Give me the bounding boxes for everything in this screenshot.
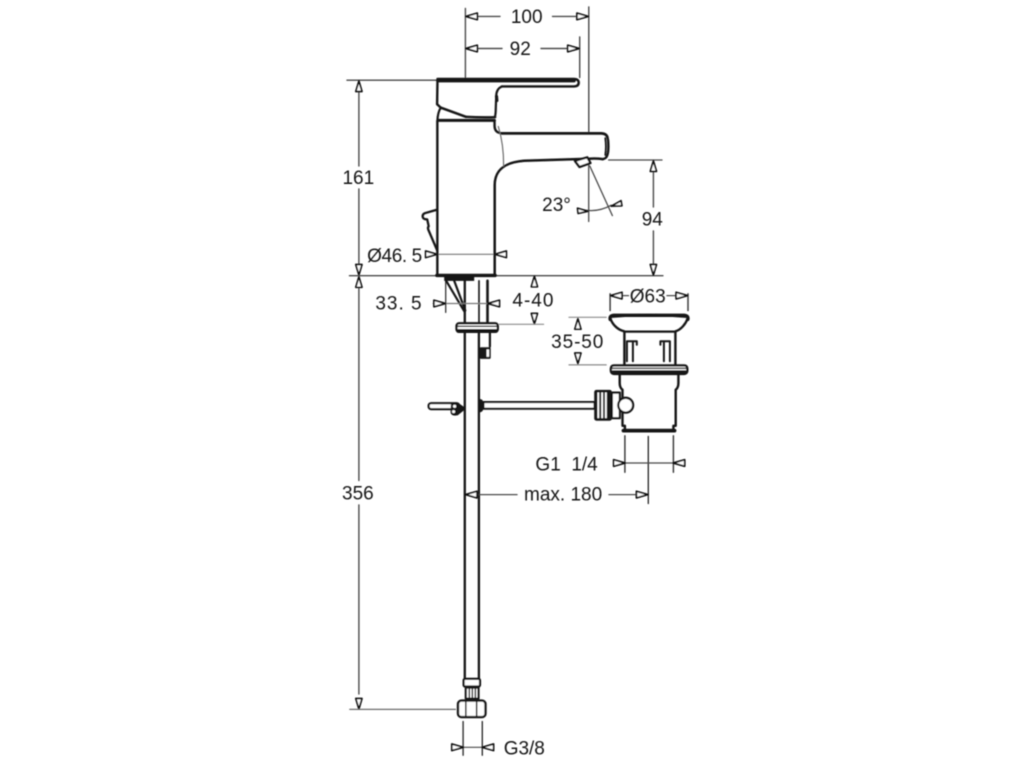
reference line bottom for dim 356 [350, 708, 456, 710]
svg-text:G3/8: G3/8 [504, 739, 545, 760]
supply tube right edge [478, 332, 480, 679]
spout aerator [575, 157, 591, 167]
reference line for dim 4-40 (washer top) [499, 323, 544, 325]
dimension D46.5 line across body [437, 253, 494, 255]
faucet lever top bar [438, 79, 579, 87]
dimension 4-40 arrows [531, 276, 537, 287]
dimension G1 1/4 line [625, 462, 674, 464]
threaded shank right wall [486, 281, 489, 324]
svg-text:max. 180: max. 180 [524, 484, 602, 505]
svg-text:23°: 23° [542, 195, 571, 216]
dimension G3/8 line and arrows [463, 746, 482, 748]
threaded shank left wall [464, 281, 466, 324]
linkage ball nut on tube [480, 399, 484, 412]
linkage rod left segment [429, 403, 460, 409]
dimension max. 180 right arrow [609, 494, 637, 496]
dimension D46.5 arrows [426, 251, 438, 258]
dimension 100 line [477, 15, 500, 17]
dimension 92 line [477, 48, 502, 50]
drain bottom edge [624, 429, 675, 433]
faucet lever neck front edge [495, 87, 502, 118]
faucet base plate bottom edge [437, 274, 495, 277]
drain linkage ball [618, 398, 633, 413]
svg-text:94: 94 [642, 210, 664, 231]
supply hose diagonal 2 [454, 281, 465, 311]
extension lines for dim G3/8 [462, 722, 464, 756]
angle 23 deg vertex line [588, 161, 590, 222]
angle 23 deg arrows [578, 208, 588, 213]
dimension 94 line [652, 173, 654, 208]
faucet body left edge [436, 121, 438, 274]
faucet lever bottom-left corner [437, 104, 441, 108]
svg-text:G1 1/4: G1 1/4 [535, 455, 598, 476]
drain neck walls [623, 332, 625, 365]
supply hose diagonal 1 [446, 281, 464, 312]
dimension 356 line [358, 288, 360, 481]
drain center line [647, 437, 649, 504]
dimension G1 1/4 arrows [614, 460, 626, 467]
svg-text:100: 100 [511, 7, 543, 28]
mounting stud below washer [489, 332, 491, 346]
reference line spout outlet for dim 94 [609, 159, 662, 161]
svg-text:161: 161 [342, 168, 374, 189]
drain side inlet ridged nut [594, 390, 612, 421]
countertop baseline [350, 275, 663, 277]
linkage clamp knot [451, 403, 465, 416]
base gasket [444, 277, 474, 281]
drain neck slot left [627, 341, 637, 361]
dimension D63 ticks [609, 294, 611, 311]
extension line left (faucet axis) for dims 100/92 [464, 9, 466, 78]
drain lock ring [611, 365, 687, 374]
dimension 33.5 line [433, 303, 489, 305]
hose end knurl [466, 688, 479, 699]
faucet body right edge upper with corner to spout [495, 121, 502, 134]
extension line top for dim 161 [347, 79, 437, 81]
hose end nut G3/8 [458, 701, 486, 718]
horseshoe washer [457, 323, 498, 332]
spout-body fillet arc [498, 127, 503, 167]
angle 23 deg arc [581, 205, 611, 210]
faucet body dome left arc [437, 108, 440, 121]
dimension 35-50 reference lines [569, 316, 606, 318]
spout end cap [603, 137, 609, 159]
svg-text:33. 5: 33. 5 [375, 294, 422, 315]
faucet lever bottom edge [466, 116, 495, 119]
angle 23 deg slanted line [590, 166, 613, 216]
svg-text:356: 356 [342, 484, 374, 505]
dimension max. 180 left arrow [466, 491, 478, 498]
svg-text:Ø46. 5: Ø46. 5 [367, 246, 422, 267]
svg-text:Ø63: Ø63 [630, 286, 666, 307]
faucet lever left edge [436, 80, 439, 105]
svg-text:35-50: 35-50 [551, 332, 604, 353]
extension line right for dim 100 (spout outlet axis) [588, 7, 590, 132]
drain neck slot right [660, 341, 670, 361]
spout bottom edge [495, 159, 603, 274]
faucet lever neck notch [495, 97, 498, 101]
drain funnel left side [610, 319, 624, 332]
pull rod line inside shank [478, 281, 480, 324]
svg-text:92: 92 [510, 39, 531, 60]
linkage rod right segment [484, 402, 595, 409]
drain side inlet collar [612, 393, 620, 419]
extension line right for dim 92 (lever tip) [579, 37, 581, 78]
faucet lever bottom diagonal [441, 108, 466, 117]
svg-text:4-40: 4-40 [512, 291, 554, 312]
drain funnel shoulder line [624, 331, 675, 333]
supply tube left edge [464, 332, 466, 679]
rod clamp block [480, 347, 491, 359]
dimension 161 line [358, 90, 360, 166]
drain funnel right side [676, 319, 688, 332]
drain body walls [620, 374, 625, 429]
pull-rod knob on body left [423, 210, 438, 251]
dimension D63 line and arrows [622, 295, 629, 297]
spout top edge [502, 133, 608, 136]
extension line for dim 33.5 [445, 281, 447, 313]
dimension 35-50 arrows [575, 319, 581, 330]
faucet body top edge [439, 119, 495, 122]
drain flange top [610, 315, 688, 319]
extension lines below drain [624, 436, 626, 473]
hose end fitting collar [464, 679, 480, 687]
dimension 33.5 arrows [434, 300, 446, 307]
